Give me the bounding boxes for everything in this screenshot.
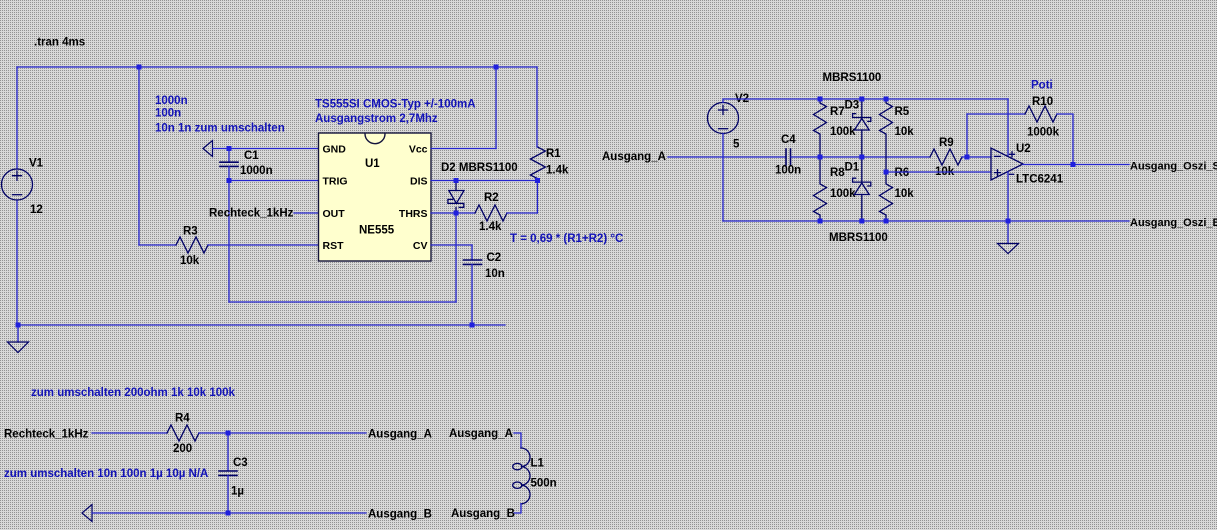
svg-text:MBRS1100: MBRS1100 xyxy=(823,72,882,84)
svg-text:1000n: 1000n xyxy=(155,95,188,107)
svg-text:R9: R9 xyxy=(939,137,954,149)
wire TRIG pin xyxy=(229,180,318,182)
wire opamp Vminus drop xyxy=(1007,172,1009,221)
svg-text:L1: L1 xyxy=(531,458,545,470)
wire feedback top to R10 xyxy=(967,113,1025,115)
junction node mid D3 D1 xyxy=(859,155,864,160)
wire top rail left section xyxy=(17,66,537,68)
wire C4 right to R9 xyxy=(791,156,930,158)
svg-text:D1: D1 xyxy=(845,162,860,174)
wire L1 top lead xyxy=(514,433,521,448)
wire R2 right lead xyxy=(507,212,537,214)
junction node R9 feedback xyxy=(965,155,970,160)
svg-text:MBRS1100: MBRS1100 xyxy=(829,232,888,244)
svg-text:200: 200 xyxy=(173,443,192,455)
wire C1 top stem xyxy=(228,149,230,163)
junction node rail R7 xyxy=(818,97,823,102)
wire C2 bottom stem xyxy=(471,265,473,326)
wire L1 bottom lead xyxy=(514,504,521,513)
wire C1 bottom stem xyxy=(228,167,230,181)
svg-text:RST: RST xyxy=(323,240,345,252)
svg-text:R10: R10 xyxy=(1032,96,1053,108)
svg-text:12: 12 xyxy=(30,204,43,216)
svg-text:R4: R4 xyxy=(175,413,190,425)
wire V1 bottom lead xyxy=(16,200,18,325)
resistor R2 xyxy=(475,205,507,221)
svg-text:zum umschalten 200ohm 1k 10k 1: zum umschalten 200ohm 1k 10k 100k xyxy=(31,387,236,399)
junction node rail R8 xyxy=(818,219,823,224)
svg-text:1000n: 1000n xyxy=(240,165,273,177)
svg-text:.tran 4ms: .tran 4ms xyxy=(34,37,85,49)
port arrow flag at GND net xyxy=(203,141,213,157)
svg-text:R1: R1 xyxy=(546,148,561,160)
svg-text:Poti: Poti xyxy=(1031,80,1053,92)
resistor R7 xyxy=(814,99,827,157)
resistor R10 xyxy=(1025,106,1057,122)
junction node C3 bottom xyxy=(226,511,231,516)
junction node ground left xyxy=(16,323,21,328)
junction node mid R7 R8 xyxy=(818,155,823,160)
wire left branch vertical x139 xyxy=(138,67,140,245)
junction node rail R6 xyxy=(884,219,889,224)
svg-text:Vcc: Vcc xyxy=(409,144,428,156)
wire vertical x229 TRIG to bottom xyxy=(228,181,230,303)
junction node C1 top xyxy=(227,146,232,151)
svg-text:10n: 10n xyxy=(485,268,505,280)
svg-text:GND: GND xyxy=(323,144,347,156)
svg-text:D2 MBRS1100: D2 MBRS1100 xyxy=(441,162,518,174)
svg-text:Rechteck_1kHz: Rechteck_1kHz xyxy=(4,429,89,441)
junction node DIS R1 R2 xyxy=(535,178,540,183)
svg-text:R3: R3 xyxy=(183,226,198,238)
svg-text:R5: R5 xyxy=(895,106,910,118)
op NE555 box U1 xyxy=(319,133,432,261)
svg-text:Ausgang_B: Ausgang_B xyxy=(451,508,515,520)
svg-text:10k: 10k xyxy=(895,126,915,138)
svg-text:Ausgang_Oszi_S: Ausgang_Oszi_S xyxy=(1130,161,1217,173)
port arrow flag Ausgang_B xyxy=(82,505,92,522)
diode D2 xyxy=(448,181,464,214)
wire DIS pin to R1 node xyxy=(431,180,537,182)
op-amp U2 xyxy=(991,148,1023,180)
svg-text:DIS: DIS xyxy=(410,176,428,188)
wire V2 top to rail xyxy=(723,99,1008,103)
svg-text:Ausgang_Oszi_B: Ausgang_Oszi_B xyxy=(1130,217,1217,229)
wire GND pin xyxy=(213,148,319,150)
capacitor C4 xyxy=(786,149,791,165)
diode D1 xyxy=(853,157,871,221)
svg-text:OUT: OUT xyxy=(323,208,346,220)
ground symbol left xyxy=(8,325,29,353)
svg-text:10k: 10k xyxy=(180,255,200,267)
svg-text:TRIG: TRIG xyxy=(323,176,348,188)
svg-text:R8: R8 xyxy=(830,167,845,179)
wire OUT pin xyxy=(294,212,318,214)
wire V2 bottom drop xyxy=(722,134,724,222)
svg-text:CV: CV xyxy=(413,240,428,252)
wire horizontal y302 xyxy=(229,301,456,303)
svg-text:Ausgang_B: Ausgang_B xyxy=(368,509,432,521)
svg-text:Ausgang_A: Ausgang_A xyxy=(449,428,513,440)
svg-text:10k: 10k xyxy=(895,188,915,200)
diode D3 xyxy=(853,99,871,157)
svg-text:Ausgang_A: Ausgang_A xyxy=(368,429,432,441)
wire R4 left lead xyxy=(92,432,167,434)
junction node x139 top rail xyxy=(137,65,142,70)
junction node output R10 xyxy=(1071,162,1076,167)
svg-text:zum umschalten 10n 100n 1µ 10µ: zum umschalten 10n 100n 1µ 10µ N/A xyxy=(4,468,208,480)
svg-text:R6: R6 xyxy=(895,167,910,179)
voltage source V1 xyxy=(2,169,33,200)
svg-text:Ausgangstrom 2,7Mhz: Ausgangstrom 2,7Mhz xyxy=(315,113,438,125)
svg-text:100k: 100k xyxy=(830,126,856,138)
wire Ausgang_B bottom xyxy=(92,512,366,514)
svg-text:10n 1n zum umschalten: 10n 1n zum umschalten xyxy=(155,123,285,135)
svg-text:100n: 100n xyxy=(155,108,181,120)
comment timing caps xyxy=(155,95,285,135)
svg-text:C2: C2 xyxy=(487,252,502,264)
svg-text:THRS: THRS xyxy=(399,208,428,220)
wire Vcc pin xyxy=(431,148,496,150)
wire R10 right leads xyxy=(1057,114,1073,165)
wire R3 right lead to RST xyxy=(208,244,318,246)
svg-text:Rechteck_1kHz: Rechteck_1kHz xyxy=(209,208,294,220)
svg-text:1µ: 1µ xyxy=(231,486,244,498)
resistor R5 xyxy=(880,99,893,172)
wire bottom rail right section xyxy=(723,220,1129,222)
ground symbol under opamp xyxy=(998,221,1019,254)
svg-text:1000k: 1000k xyxy=(1027,127,1060,139)
wire opamp V+ riser xyxy=(1007,99,1009,156)
junction node THRS D2 xyxy=(454,211,459,216)
svg-text:100k: 100k xyxy=(830,188,856,200)
capacitor C2 xyxy=(464,260,482,264)
resistor R8 xyxy=(814,157,827,221)
junction node R4 C3 xyxy=(226,431,231,436)
svg-text:1.4k: 1.4k xyxy=(479,221,502,233)
wire opamp plus input xyxy=(886,171,991,173)
wire bottom rail left section xyxy=(17,324,505,326)
wire R1 top lead xyxy=(536,67,538,147)
svg-text:T = 0,69 * (R1+R2) °C: T = 0,69 * (R1+R2) °C xyxy=(510,233,623,245)
junction node x496 top rail xyxy=(494,65,499,70)
svg-text:Ausgang_A: Ausgang_A xyxy=(602,151,666,163)
junction node rail R5 xyxy=(884,97,889,102)
comment TS555SI xyxy=(315,99,476,126)
wire C3 bottom stem xyxy=(227,476,229,514)
wire Ausgang_A to C4 xyxy=(668,156,786,158)
svg-text:U1: U1 xyxy=(365,158,380,170)
wire THRS pin xyxy=(431,212,456,214)
svg-text:V1: V1 xyxy=(29,158,44,170)
svg-text:U2: U2 xyxy=(1016,143,1031,155)
wire R1 bottom lead xyxy=(536,179,538,181)
wire C2 top stem xyxy=(471,245,473,260)
wire Vcc riser x496 xyxy=(495,67,497,149)
wire V1 top lead xyxy=(16,67,18,169)
inductor L1 xyxy=(513,448,530,504)
junction node R5 R6 plus input xyxy=(884,170,889,175)
svg-text:C4: C4 xyxy=(781,134,796,146)
svg-text:C3: C3 xyxy=(233,457,248,469)
junction node C2 bottom xyxy=(470,323,475,328)
svg-text:5: 5 xyxy=(733,139,740,151)
resistor R6 xyxy=(880,172,893,221)
svg-text:TS555SI CMOS-Typ +/-100mA: TS555SI CMOS-Typ +/-100mA xyxy=(315,99,476,111)
svg-text:500n: 500n xyxy=(531,478,557,490)
junction node rail D3 xyxy=(859,97,864,102)
svg-text:C1: C1 xyxy=(244,150,259,162)
capacitor C3 xyxy=(219,471,237,475)
svg-text:LTC6241: LTC6241 xyxy=(1016,174,1064,186)
junction node D2 anode xyxy=(454,178,459,183)
svg-text:1.4k: 1.4k xyxy=(546,165,569,177)
svg-text:R7: R7 xyxy=(830,106,845,118)
resistor R3 xyxy=(176,237,208,253)
wire vertical x456 up to THRS xyxy=(455,213,457,302)
svg-text:R2: R2 xyxy=(484,192,499,204)
svg-text:D3: D3 xyxy=(845,100,860,112)
wire CV pin xyxy=(431,244,472,246)
junction node rail D1 xyxy=(859,219,864,224)
wire feedback riser x967 xyxy=(966,114,968,157)
wire R2 left lead xyxy=(456,212,475,214)
svg-text:NE555: NE555 xyxy=(359,225,395,237)
capacitor C1 xyxy=(220,162,238,166)
resistor R1 xyxy=(530,147,545,179)
wire R3 left lead xyxy=(139,244,176,246)
voltage source V2 xyxy=(708,103,739,134)
wire R2 to DIS node vertical xyxy=(536,181,538,214)
wire C3 top stem xyxy=(227,433,229,471)
resistor R9 xyxy=(930,149,962,165)
wire R9 right to opamp minus xyxy=(962,156,991,158)
junction node TRIG xyxy=(227,178,232,183)
resistor R4 xyxy=(167,425,199,441)
wire R4 right lead to Ausgang_A xyxy=(199,432,366,434)
junction node rail opamp ground xyxy=(1006,219,1011,224)
wire opamp output xyxy=(1023,164,1129,166)
svg-text:100n: 100n xyxy=(775,165,801,177)
